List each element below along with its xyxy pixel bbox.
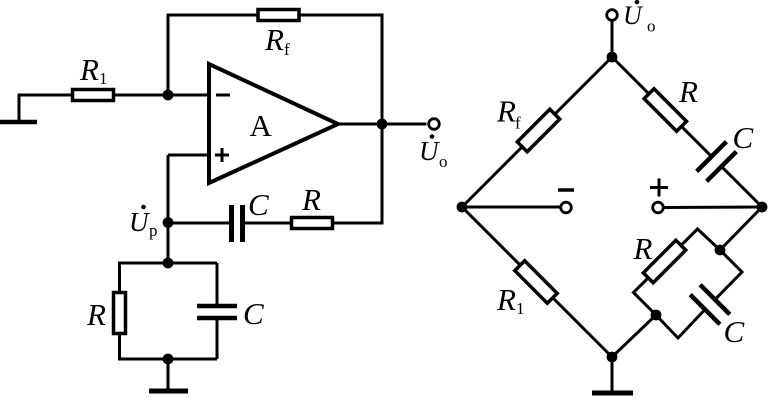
wire parallel RC top [118, 262, 217, 265]
wire bridge arm bottom-left [462, 207, 612, 357]
wire output branch vertical [381, 124, 384, 223]
terminal minus [561, 202, 572, 213]
node (output junction) [377, 119, 388, 130]
svg-text:o: o [439, 152, 448, 171]
svg-text:R: R [633, 231, 653, 266]
wire right branch lower [216, 318, 219, 359]
node (loop lower) [651, 310, 662, 321]
resistor R (series) [292, 218, 333, 229]
node (bridge left) [457, 202, 468, 213]
svg-text:U: U [623, 1, 644, 30]
capacitor C (parallel) [197, 306, 237, 318]
svg-text:R: R [678, 74, 698, 109]
svg-text:U: U [419, 136, 440, 166]
wire parallel RC bottom [118, 358, 217, 361]
resistor R (bridge top-right) [644, 89, 686, 131]
terminal Uo (bridge) [607, 10, 618, 21]
svg-text:1: 1 [99, 69, 108, 88]
wire op-amp output [338, 123, 427, 126]
svg-text:o: o [647, 17, 656, 36]
capacitor C (series) [232, 205, 243, 242]
wire bridge arm top-left [462, 57, 612, 207]
ground (bridge bottom) [592, 357, 633, 393]
capacitor C (bridge top-right) [697, 142, 737, 182]
svg-text:1: 1 [516, 299, 525, 318]
svg-text:U: U [129, 207, 150, 237]
resistor R1 (bridge) [515, 261, 557, 303]
wire loop right side upper [715, 250, 742, 300]
label plus sign [650, 179, 668, 197]
label R1 (bridge) [496, 282, 525, 318]
resistor Rf (bridge) [517, 109, 559, 151]
node (bridge top) [607, 52, 618, 63]
wire noninverting input [168, 154, 209, 157]
svg-text:C: C [243, 296, 264, 331]
wire loop right side lower [656, 309, 705, 338]
resistor R1 [73, 90, 114, 101]
label minus sign [558, 188, 574, 192]
svg-text:R: R [79, 52, 99, 87]
label R1 [79, 52, 108, 88]
svg-text:R: R [301, 182, 321, 217]
node (bridge bottom) [607, 352, 618, 363]
wire Up vertical [167, 155, 170, 263]
node (parallel RC top) [163, 258, 174, 269]
wire feedback top left [167, 14, 259, 17]
wire feedback right vertical [381, 14, 384, 125]
svg-text:C: C [733, 120, 754, 155]
wire R to C (series) [245, 222, 291, 225]
svg-text:A: A [250, 108, 273, 143]
wire left branch lower [118, 334, 121, 361]
wire feedback left vertical [167, 14, 170, 97]
node Up [163, 217, 174, 228]
svg-text:C: C [724, 314, 745, 349]
node (loop upper) [715, 245, 726, 256]
wire ground to R1 [18, 94, 73, 97]
svg-text:R: R [264, 22, 284, 57]
wire right branch upper [216, 263, 219, 305]
ground (left input) [0, 95, 37, 122]
svg-text:f: f [284, 40, 290, 59]
label Rf [264, 22, 290, 59]
label Uo (left circuit) [419, 134, 448, 171]
resistor R (parallel) [114, 293, 126, 334]
label Up [129, 205, 158, 240]
wire bridge top terminal [611, 21, 614, 57]
wire R1 to op-amp inverting input [114, 94, 209, 97]
wire feedback top right [299, 14, 384, 17]
terminal plus [653, 202, 664, 213]
wire C to node Up [168, 222, 229, 225]
svg-text:C: C [248, 187, 269, 222]
svg-text:R: R [86, 297, 106, 332]
label Rf (bridge) [496, 94, 521, 133]
capacitor C (bridge loop) [690, 285, 730, 325]
resistor Rf [258, 10, 299, 21]
node (inverting input junction) [163, 90, 174, 101]
wire bridge arm bottom-right upper [720, 207, 762, 250]
wire plus terminal [664, 206, 762, 210]
terminal Uo (left circuit) [429, 119, 440, 130]
wire bridge arm top-right lower [721, 166, 762, 207]
wire minus terminal [462, 206, 560, 209]
wire bridge arm top-right upper [612, 57, 712, 157]
svg-text:p: p [149, 221, 158, 240]
svg-text:R: R [496, 282, 516, 317]
ground (below parallel RC) [149, 359, 188, 391]
node (parallel RC bottom) [163, 354, 174, 365]
resistor R (bridge loop) [643, 240, 685, 282]
label Uo (bridge) [623, 0, 656, 35]
wire left branch upper [118, 262, 121, 293]
wire bridge arm bottom-right lower [612, 315, 656, 357]
svg-text:R: R [496, 94, 516, 129]
wire output branch to R [333, 222, 384, 225]
wire loop upper-left corner [634, 229, 721, 315]
op-amp A [209, 64, 338, 183]
node (bridge right) [757, 202, 768, 213]
svg-text:f: f [515, 114, 521, 133]
